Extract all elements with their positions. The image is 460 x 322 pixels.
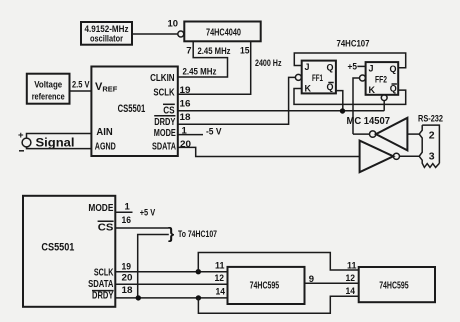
svg-text:18: 18 bbox=[180, 112, 191, 123]
svg-text:12: 12 bbox=[346, 273, 356, 284]
svg-text:MODE: MODE bbox=[88, 203, 113, 214]
svg-text:Q: Q bbox=[326, 82, 333, 92]
wire SCLK bypass to second 595 pin 11 bbox=[198, 253, 358, 272]
svg-text:74HC595: 74HC595 bbox=[379, 280, 409, 291]
wire DRDY branch to brace bbox=[138, 235, 169, 298]
svg-text:2.45 MHz: 2.45 MHz bbox=[183, 67, 217, 78]
wire FF1 Qbar to CS net bbox=[336, 91, 343, 111]
shift register U3 74HC595 (first) bbox=[228, 267, 305, 304]
wire signal+ to AIN bbox=[27, 134, 92, 139]
wire CS to brace bbox=[115, 227, 169, 229]
svg-text:15: 15 bbox=[240, 45, 250, 56]
svg-text:3: 3 bbox=[429, 151, 435, 163]
wire SDATA to 74HC595 pin 12 bbox=[115, 283, 227, 285]
svg-text:DRDY: DRDY bbox=[92, 291, 113, 302]
wire MODE pin 1 bbox=[178, 134, 203, 136]
svg-text:CS: CS bbox=[98, 223, 114, 234]
svg-text:2.5 V: 2.5 V bbox=[72, 80, 90, 91]
svg-text:18: 18 bbox=[122, 285, 133, 296]
svg-text:SDATA: SDATA bbox=[152, 141, 176, 152]
oscillator box 4.9152-MHz bbox=[81, 22, 132, 45]
svg-text:+: + bbox=[18, 130, 24, 141]
ADC U2 CS5501 (bottom) bbox=[23, 196, 115, 307]
junction dot DRDY-brace bbox=[136, 295, 141, 300]
signal input terminal bbox=[18, 130, 75, 151]
wire SCLK to 74HC595 pin 11 bbox=[115, 271, 227, 273]
flip-flop FF2 bbox=[360, 62, 399, 101]
wire FF2 clock to inverter output bbox=[353, 78, 359, 134]
svg-text:20: 20 bbox=[180, 139, 191, 150]
counter U1 74HC4040 bbox=[184, 22, 260, 42]
junction dot SCLK bbox=[196, 269, 201, 274]
svg-text:4.9152-MHz: 4.9152-MHz bbox=[85, 24, 129, 34]
wire DRDY bypass to second 595 pin 14 bbox=[198, 296, 358, 313]
svg-text:J: J bbox=[369, 64, 374, 74]
svg-text:RS-232: RS-232 bbox=[418, 114, 443, 125]
svg-text:+5 V: +5 V bbox=[140, 207, 156, 218]
wire voltage reference to VREF bbox=[70, 90, 92, 92]
svg-text:1: 1 bbox=[125, 201, 131, 212]
svg-text:16: 16 bbox=[122, 215, 132, 226]
svg-text:FF2: FF2 bbox=[375, 75, 387, 85]
ADC U2 CS5501 (top) bbox=[91, 67, 177, 157]
flip-flop FF1 bbox=[295, 61, 336, 94]
wire SDATA pin 20 to inverter input bbox=[178, 147, 360, 156]
svg-text:19: 19 bbox=[180, 85, 191, 96]
svg-text:Voltage: Voltage bbox=[34, 80, 62, 90]
wire FF2 reset bubble to CS net bbox=[383, 101, 385, 111]
svg-text:J: J bbox=[305, 62, 310, 72]
svg-text:K: K bbox=[369, 85, 376, 95]
pin 10 inversion bubble bbox=[178, 31, 184, 37]
svg-text:DRDY: DRDY bbox=[154, 117, 175, 128]
svg-text:10: 10 bbox=[168, 19, 179, 30]
svg-text:-5 V: -5 V bbox=[206, 127, 222, 138]
svg-text:reference: reference bbox=[32, 92, 65, 102]
junction dot DRDY-bypass bbox=[196, 295, 201, 300]
RS-232 connector bbox=[418, 114, 443, 168]
svg-text:14: 14 bbox=[346, 286, 356, 297]
svg-text:12: 12 bbox=[215, 273, 225, 284]
svg-text:2400 Hz: 2400 Hz bbox=[255, 58, 282, 69]
wire MODE to +5V bbox=[115, 211, 132, 213]
svg-text:MODE: MODE bbox=[154, 128, 176, 139]
svg-text:CS5501: CS5501 bbox=[118, 103, 146, 115]
svg-text:2: 2 bbox=[429, 129, 435, 141]
wire FF2 Qbar to FF1 K bbox=[294, 89, 406, 105]
svg-text:11: 11 bbox=[215, 261, 225, 272]
svg-text:SDATA: SDATA bbox=[88, 279, 114, 290]
svg-text:Q: Q bbox=[390, 84, 397, 94]
svg-text:SCLK: SCLK bbox=[153, 88, 175, 99]
svg-text:AIN: AIN bbox=[96, 127, 112, 138]
svg-text:SCLK: SCLK bbox=[94, 267, 114, 278]
voltage reference box bbox=[27, 74, 70, 104]
wire 595 pin 9 to second 595 pin 12 bbox=[305, 282, 359, 284]
wire 74HC4040 pin 15 to SCLK bbox=[178, 41, 251, 94]
svg-text:Signal: Signal bbox=[36, 138, 75, 150]
svg-text:oscillator: oscillator bbox=[90, 34, 123, 44]
svg-text:AGND: AGND bbox=[95, 142, 116, 153]
svg-text:To 74HC107: To 74HC107 bbox=[178, 229, 217, 240]
svg-text:+5: +5 bbox=[348, 61, 358, 72]
wire DRDY to 74HC595 pin 14 bbox=[115, 297, 227, 299]
svg-text:74HC4040: 74HC4040 bbox=[206, 27, 241, 38]
wire DRDY pin 18 to FF1 clock bbox=[178, 77, 295, 124]
svg-text:16: 16 bbox=[180, 99, 191, 110]
svg-text:11: 11 bbox=[347, 261, 357, 272]
svg-text:VREF: VREF bbox=[95, 81, 118, 94]
wire CS pin 16 net bbox=[178, 110, 384, 112]
wire signal- to AGND bbox=[27, 147, 92, 149]
svg-text:Q: Q bbox=[326, 63, 333, 73]
svg-text:Q: Q bbox=[389, 64, 396, 74]
wire 74HC4040 pin 7 to CLKIN bbox=[178, 41, 228, 77]
svg-text:2.45 MHz: 2.45 MHz bbox=[198, 46, 231, 57]
junction dot CS net bbox=[340, 108, 345, 113]
svg-text:7: 7 bbox=[186, 45, 191, 56]
svg-text:74HC595: 74HC595 bbox=[250, 280, 280, 291]
svg-text:FF1: FF1 bbox=[312, 73, 323, 83]
shift register U4 74HC595 (second) bbox=[359, 267, 435, 302]
svg-text:20: 20 bbox=[122, 273, 133, 284]
wire +5 to FF2 J bbox=[357, 65, 365, 67]
svg-text:CS5501: CS5501 bbox=[41, 241, 74, 253]
svg-text:K: K bbox=[305, 84, 312, 94]
wire oscillator to 74HC4040 pin 10 bbox=[132, 33, 178, 35]
svg-text:19: 19 bbox=[122, 262, 132, 273]
svg-text:74HC107: 74HC107 bbox=[337, 39, 370, 50]
wire FF2 Q to FF1 J bbox=[294, 53, 405, 68]
svg-text:CS: CS bbox=[163, 106, 174, 117]
svg-text:MC 14507: MC 14507 bbox=[347, 116, 391, 127]
inverter (top, RS-232 pin2 to FF2 clock) bbox=[353, 118, 419, 151]
svg-text:14: 14 bbox=[216, 286, 226, 297]
inverter (bottom, SDATA to RS-232 pin3) bbox=[360, 141, 420, 173]
svg-text:}: } bbox=[168, 226, 174, 243]
svg-text:CLKIN: CLKIN bbox=[150, 73, 175, 84]
